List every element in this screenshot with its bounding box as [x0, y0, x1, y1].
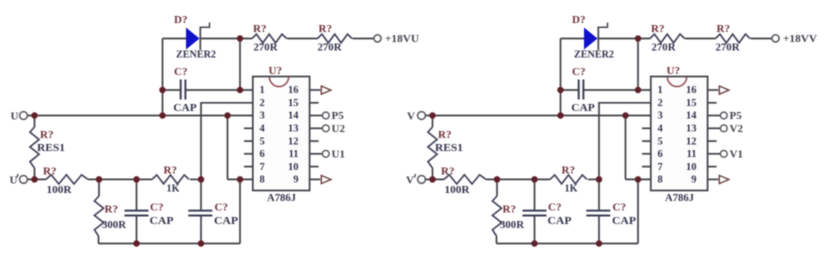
svg-text:U: U [10, 175, 18, 187]
svg-text:U1: U1 [332, 148, 345, 160]
svg-text:+18VV: +18VV [783, 33, 817, 45]
svg-text:U2: U2 [332, 123, 346, 135]
svg-text:V2: V2 [730, 123, 744, 135]
svg-text:V: V [407, 111, 415, 123]
svg-text:V1: V1 [730, 148, 743, 160]
svg-text:+18VU: +18VU [385, 33, 419, 45]
svg-text:U: U [11, 111, 19, 123]
svg-text:V: V [406, 175, 414, 187]
